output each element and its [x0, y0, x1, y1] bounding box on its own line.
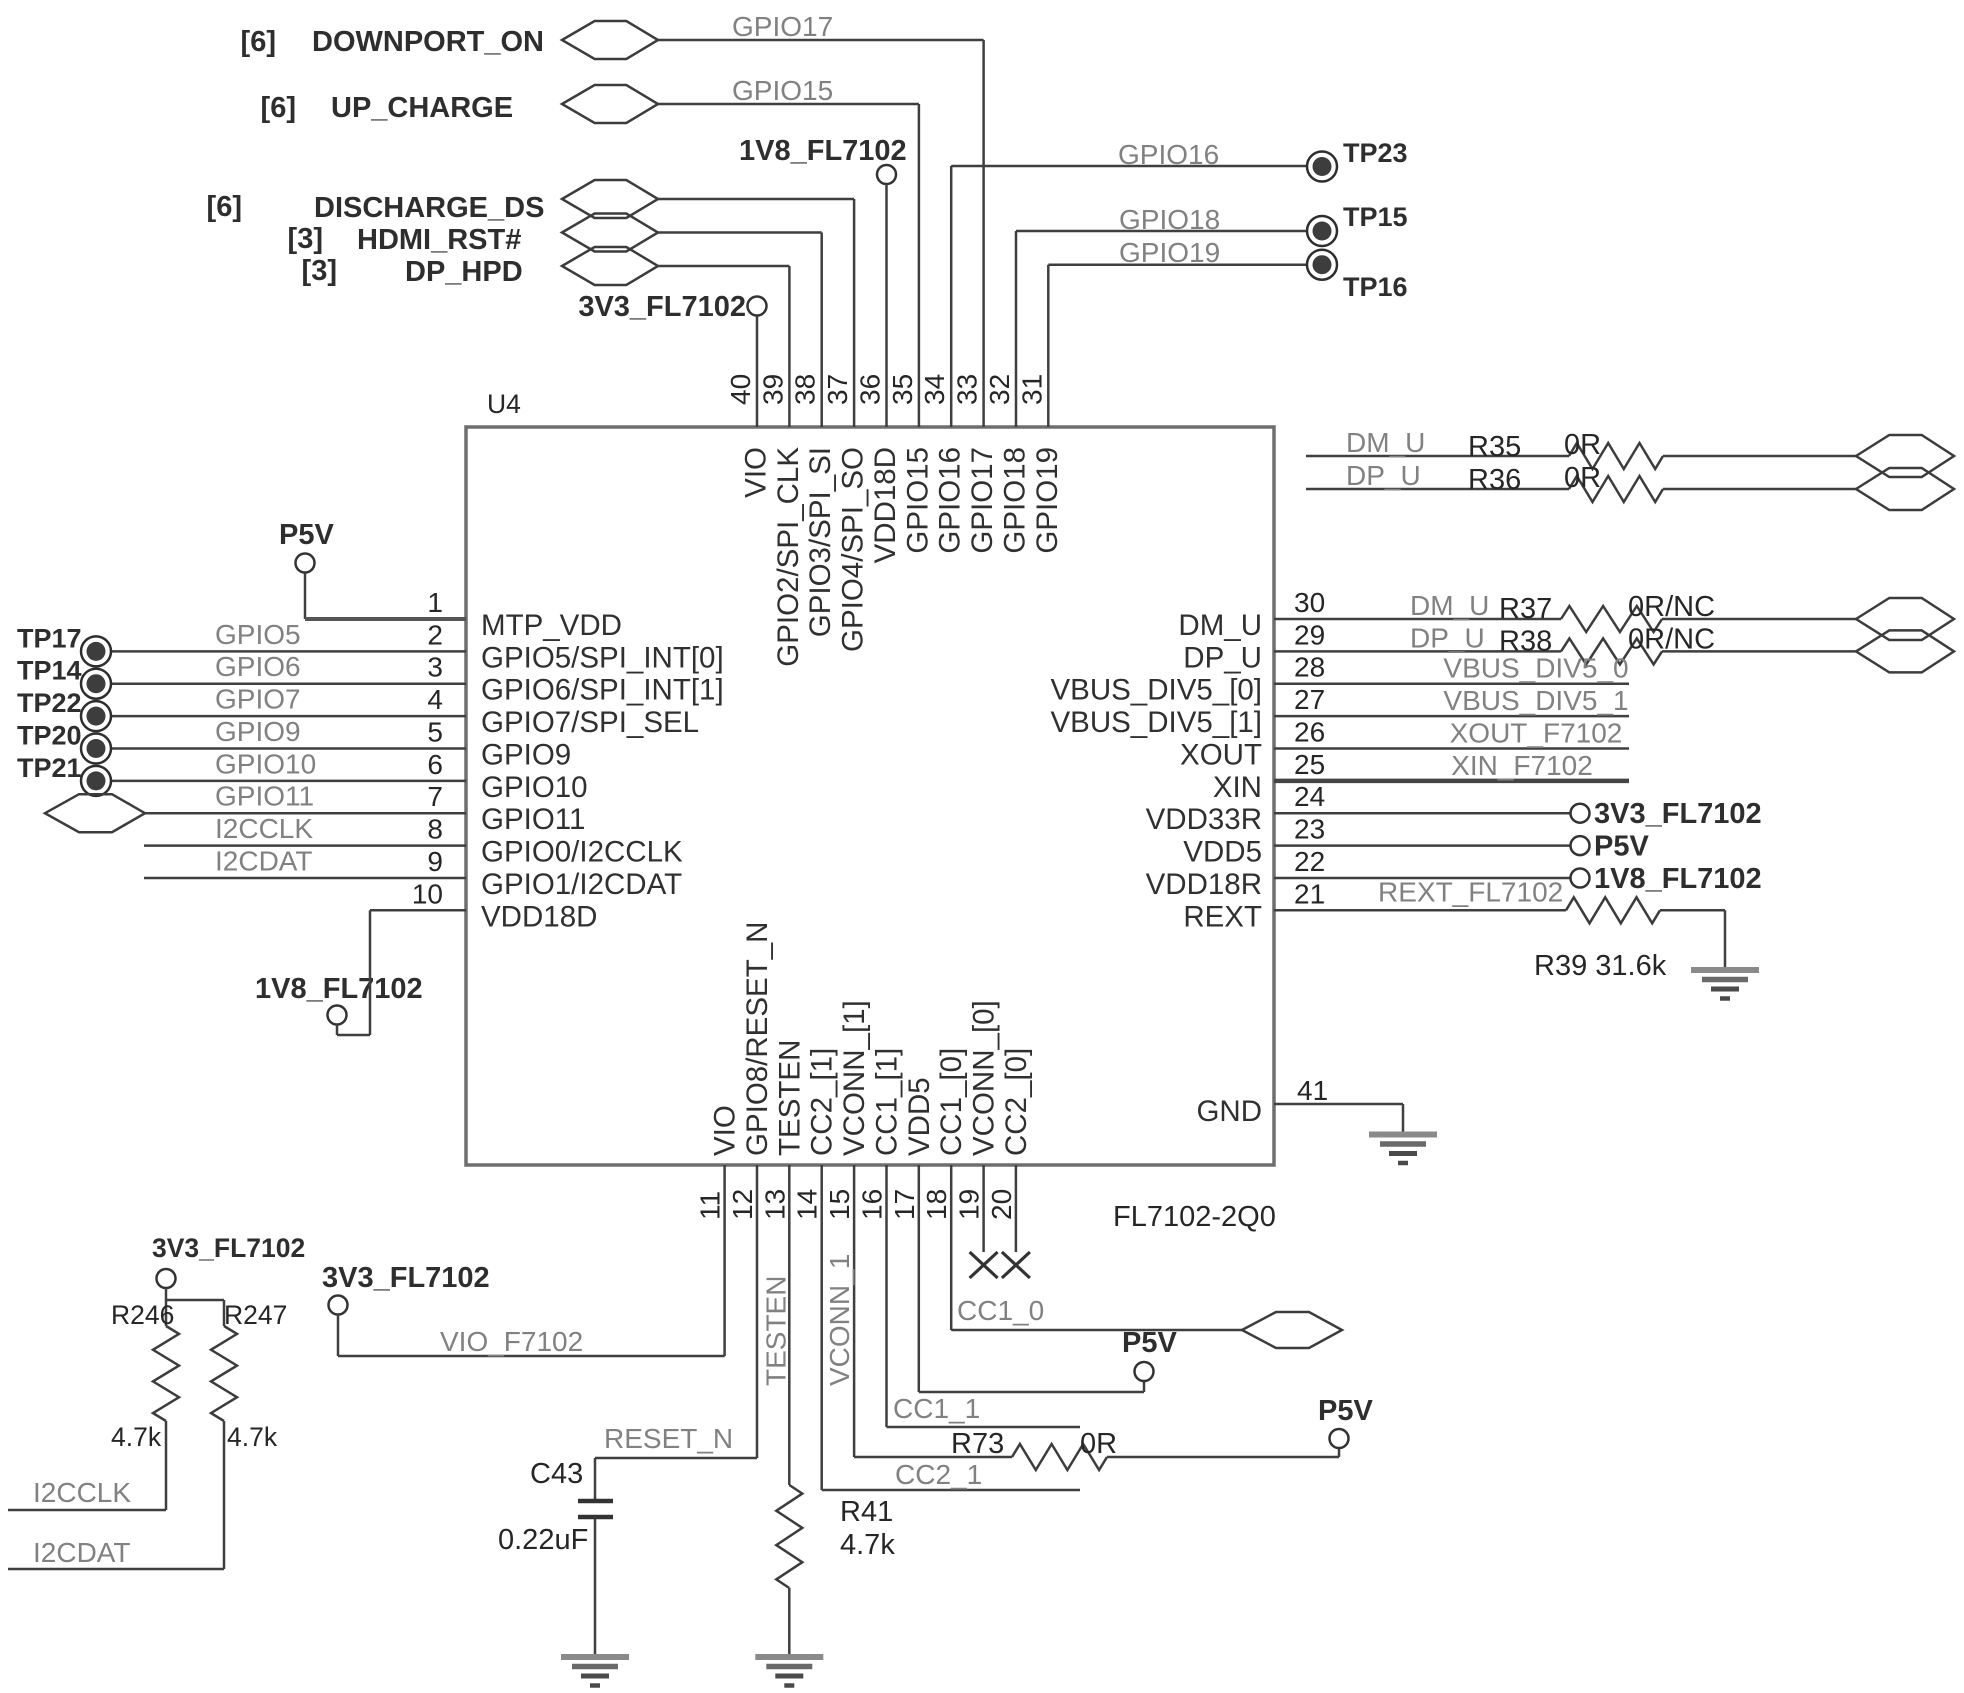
- svg-text:39: 39: [757, 374, 788, 405]
- svg-text:REXT_FL7102: REXT_FL7102: [1378, 876, 1563, 907]
- svg-text:VIO_F7102: VIO_F7102: [440, 1326, 583, 1357]
- svg-text:U4: U4: [487, 389, 521, 419]
- svg-text:VCONN_1: VCONN_1: [824, 1254, 855, 1386]
- svg-text:XIN: XIN: [1213, 771, 1262, 804]
- svg-text:TP17: TP17: [17, 623, 82, 653]
- svg-text:GPIO5/SPI_INT[0]: GPIO5/SPI_INT[0]: [481, 641, 724, 674]
- svg-text:DP_U: DP_U: [1410, 622, 1485, 653]
- svg-text:GPIO16: GPIO16: [934, 447, 967, 554]
- svg-text:4.7k: 4.7k: [227, 1422, 278, 1452]
- svg-text:7: 7: [427, 781, 443, 812]
- svg-text:TP15: TP15: [1343, 202, 1408, 232]
- svg-text:11: 11: [695, 1191, 726, 1220]
- svg-text:25: 25: [1294, 749, 1325, 780]
- svg-text:40: 40: [725, 374, 756, 405]
- svg-text:GPIO18: GPIO18: [999, 447, 1032, 554]
- svg-text:VDD33R: VDD33R: [1146, 803, 1262, 836]
- svg-text:[6]: [6]: [207, 191, 242, 223]
- svg-text:6: 6: [427, 749, 443, 780]
- svg-text:0R: 0R: [1080, 1428, 1117, 1460]
- svg-text:31: 31: [1016, 374, 1047, 405]
- svg-text:4.7k: 4.7k: [840, 1529, 895, 1561]
- svg-text:0R/NC: 0R/NC: [1628, 591, 1715, 623]
- svg-text:2: 2: [427, 619, 443, 650]
- svg-text:17: 17: [889, 1189, 920, 1220]
- svg-text:3V3_FL7102: 3V3_FL7102: [578, 291, 746, 323]
- svg-text:32: 32: [984, 374, 1015, 405]
- svg-text:0R/NC: 0R/NC: [1628, 623, 1715, 655]
- svg-text:GPIO16: GPIO16: [1118, 139, 1219, 170]
- svg-text:1V8_FL7102: 1V8_FL7102: [255, 973, 423, 1005]
- svg-text:GPIO9: GPIO9: [215, 716, 301, 747]
- svg-text:R73: R73: [951, 1428, 1004, 1460]
- svg-text:GPIO11: GPIO11: [215, 781, 314, 812]
- svg-text:13: 13: [759, 1189, 790, 1220]
- svg-text:I2CDAT: I2CDAT: [33, 1537, 131, 1568]
- svg-text:GPIO10: GPIO10: [481, 771, 588, 804]
- svg-text:3V3_FL7102: 3V3_FL7102: [152, 1233, 305, 1263]
- svg-text:GPIO3/SPI_SI: GPIO3/SPI_SI: [804, 447, 837, 637]
- svg-text:4: 4: [427, 684, 443, 715]
- svg-text:RESET_N: RESET_N: [604, 1423, 733, 1454]
- svg-text:R39 31.6k: R39 31.6k: [1534, 950, 1667, 982]
- svg-text:1V8_FL7102: 1V8_FL7102: [739, 135, 907, 167]
- svg-text:CC2_[0]: CC2_[0]: [1000, 1048, 1033, 1156]
- svg-text:I2CCLK: I2CCLK: [215, 813, 313, 844]
- svg-text:29: 29: [1294, 619, 1325, 650]
- svg-text:28: 28: [1294, 652, 1325, 683]
- svg-text:DP_U: DP_U: [1346, 460, 1421, 491]
- svg-text:GPIO6/SPI_INT[1]: GPIO6/SPI_INT[1]: [481, 674, 724, 707]
- svg-text:CC2_1: CC2_1: [895, 1459, 982, 1490]
- svg-text:3V3_FL7102: 3V3_FL7102: [322, 1262, 490, 1294]
- svg-text:10: 10: [412, 878, 443, 909]
- svg-text:VBUS_DIV5_0: VBUS_DIV5_0: [1443, 653, 1628, 684]
- svg-text:GPIO9: GPIO9: [481, 739, 571, 772]
- svg-text:37: 37: [822, 374, 853, 405]
- svg-text:XOUT_F7102: XOUT_F7102: [1450, 718, 1623, 749]
- svg-text:CC1_1: CC1_1: [893, 1393, 980, 1424]
- svg-text:GPIO5: GPIO5: [215, 619, 301, 650]
- svg-text:26: 26: [1294, 717, 1325, 748]
- svg-text:GPIO19: GPIO19: [1031, 447, 1064, 554]
- svg-text:8: 8: [427, 814, 443, 845]
- svg-text:R247: R247: [224, 1300, 287, 1330]
- svg-text:VIO: VIO: [709, 1105, 742, 1156]
- svg-text:12: 12: [727, 1189, 758, 1220]
- svg-text:P5V: P5V: [1594, 831, 1649, 863]
- svg-text:TP16: TP16: [1343, 272, 1408, 302]
- svg-text:UP_CHARGE: UP_CHARGE: [331, 92, 513, 124]
- svg-text:9: 9: [427, 846, 443, 877]
- svg-text:C43: C43: [530, 1458, 583, 1490]
- svg-text:GPIO8/RESET_N: GPIO8/RESET_N: [741, 922, 774, 1156]
- svg-text:VDD18D: VDD18D: [869, 447, 902, 563]
- svg-text:VDD18R: VDD18R: [1146, 868, 1262, 901]
- svg-text:VIO: VIO: [740, 447, 773, 498]
- svg-text:4.7k: 4.7k: [111, 1422, 162, 1452]
- svg-text:GPIO1/I2CDAT: GPIO1/I2CDAT: [481, 868, 682, 901]
- svg-text:DM_U: DM_U: [1410, 590, 1489, 621]
- svg-text:REXT: REXT: [1183, 900, 1262, 933]
- svg-text:MTP_VDD: MTP_VDD: [481, 609, 622, 642]
- svg-text:DOWNPORT_ON: DOWNPORT_ON: [312, 26, 544, 58]
- svg-text:HDMI_RST#: HDMI_RST#: [357, 224, 521, 256]
- svg-text:[3]: [3]: [302, 255, 337, 287]
- svg-text:R36: R36: [1468, 464, 1521, 496]
- svg-text:30: 30: [1294, 587, 1325, 618]
- svg-text:27: 27: [1294, 684, 1325, 715]
- svg-text:GPIO17: GPIO17: [732, 11, 833, 42]
- svg-text:34: 34: [919, 374, 950, 405]
- svg-text:TP23: TP23: [1343, 138, 1408, 168]
- svg-text:GPIO0/I2CCLK: GPIO0/I2CCLK: [481, 836, 683, 869]
- svg-text:VBUS_DIV5_[0]: VBUS_DIV5_[0]: [1050, 674, 1262, 707]
- svg-text:20: 20: [986, 1189, 1017, 1220]
- svg-text:TP21: TP21: [17, 753, 82, 783]
- svg-text:I2CCLK: I2CCLK: [33, 1477, 131, 1508]
- svg-text:19: 19: [954, 1189, 985, 1220]
- svg-text:36: 36: [855, 374, 886, 405]
- svg-text:R246: R246: [111, 1300, 174, 1330]
- svg-text:14: 14: [792, 1189, 823, 1220]
- svg-text:22: 22: [1294, 846, 1325, 877]
- svg-text:TESTEN: TESTEN: [760, 1276, 791, 1386]
- svg-text:0R: 0R: [1564, 429, 1601, 461]
- svg-text:15: 15: [824, 1189, 855, 1220]
- svg-text:24: 24: [1294, 781, 1325, 812]
- svg-text:16: 16: [857, 1189, 888, 1220]
- svg-text:[3]: [3]: [288, 223, 323, 255]
- svg-text:TP14: TP14: [17, 656, 82, 686]
- svg-text:GPIO11: GPIO11: [481, 803, 585, 836]
- svg-text:35: 35: [887, 374, 918, 405]
- svg-text:P5V: P5V: [1122, 1327, 1177, 1359]
- svg-text:GPIO10: GPIO10: [215, 748, 316, 779]
- svg-text:GPIO17: GPIO17: [966, 447, 999, 554]
- svg-text:I2CDAT: I2CDAT: [215, 846, 313, 877]
- svg-text:0R: 0R: [1564, 462, 1601, 494]
- svg-text:VCONN_[0]: VCONN_[0]: [968, 1000, 1001, 1156]
- svg-text:GPIO2/SPI_CLK: GPIO2/SPI_CLK: [772, 447, 805, 667]
- svg-text:CC1_[0]: CC1_[0]: [935, 1048, 968, 1156]
- svg-text:1: 1: [427, 587, 443, 618]
- svg-text:VBUS_DIV5_1: VBUS_DIV5_1: [1443, 685, 1628, 716]
- svg-text:GPIO6: GPIO6: [215, 651, 301, 682]
- svg-text:VCONN_[1]: VCONN_[1]: [838, 1000, 871, 1156]
- svg-text:41: 41: [1297, 1075, 1328, 1106]
- svg-text:[6]: [6]: [241, 26, 276, 58]
- svg-text:21: 21: [1294, 878, 1325, 909]
- svg-text:P5V: P5V: [279, 519, 334, 551]
- svg-text:[6]: [6]: [261, 92, 296, 124]
- svg-text:R35: R35: [1468, 431, 1521, 463]
- svg-text:VDD5: VDD5: [1183, 836, 1262, 869]
- svg-text:GPIO15: GPIO15: [901, 447, 934, 554]
- svg-text:33: 33: [952, 374, 983, 405]
- svg-text:CC1_[1]: CC1_[1]: [871, 1048, 904, 1156]
- svg-text:GPIO19: GPIO19: [1119, 237, 1220, 268]
- svg-text:GPIO7/SPI_SEL: GPIO7/SPI_SEL: [481, 706, 699, 739]
- svg-text:0.22uF: 0.22uF: [498, 1524, 588, 1556]
- svg-text:CC2_[1]: CC2_[1]: [806, 1048, 839, 1156]
- svg-text:DP_HPD: DP_HPD: [405, 256, 523, 288]
- svg-text:5: 5: [427, 717, 443, 748]
- svg-text:GPIO15: GPIO15: [732, 75, 833, 106]
- svg-text:VDD5: VDD5: [903, 1077, 936, 1156]
- svg-text:FL7102-2Q0: FL7102-2Q0: [1113, 1201, 1276, 1233]
- svg-text:23: 23: [1294, 814, 1325, 845]
- svg-text:CC1_0: CC1_0: [957, 1295, 1044, 1326]
- svg-text:DM_U: DM_U: [1346, 427, 1425, 458]
- svg-text:VDD18D: VDD18D: [481, 900, 597, 933]
- svg-text:1V8_FL7102: 1V8_FL7102: [1594, 863, 1762, 895]
- svg-text:38: 38: [790, 374, 821, 405]
- svg-text:GPIO4/SPI_SO: GPIO4/SPI_SO: [837, 447, 870, 652]
- svg-text:DISCHARGE_DS: DISCHARGE_DS: [314, 192, 544, 224]
- svg-text:GND: GND: [1196, 1095, 1262, 1128]
- svg-text:GPIO7: GPIO7: [215, 684, 301, 715]
- svg-text:TESTEN: TESTEN: [773, 1040, 806, 1156]
- svg-text:TP22: TP22: [17, 688, 82, 718]
- svg-text:DM_U: DM_U: [1178, 609, 1262, 642]
- svg-text:VBUS_DIV5_[1]: VBUS_DIV5_[1]: [1050, 706, 1262, 739]
- svg-text:3V3_FL7102: 3V3_FL7102: [1594, 798, 1762, 830]
- svg-text:P5V: P5V: [1318, 1395, 1373, 1427]
- svg-text:XIN_F7102: XIN_F7102: [1451, 750, 1593, 781]
- svg-text:R41: R41: [840, 1496, 893, 1528]
- svg-text:18: 18: [921, 1189, 952, 1220]
- svg-text:DP_U: DP_U: [1183, 641, 1262, 674]
- svg-text:3: 3: [427, 652, 443, 683]
- svg-text:GPIO18: GPIO18: [1119, 204, 1220, 235]
- svg-text:R37: R37: [1499, 593, 1552, 625]
- svg-text:XOUT: XOUT: [1180, 739, 1262, 772]
- svg-text:TP20: TP20: [17, 721, 82, 751]
